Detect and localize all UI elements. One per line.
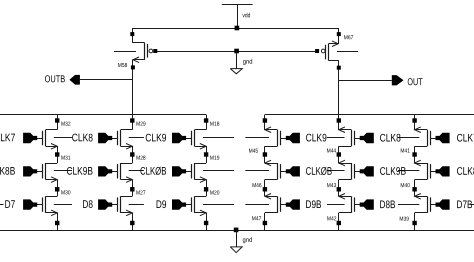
svg-text:CLK7: CLK7 — [0, 132, 15, 144]
svg-text:CLK8: CLK8 — [380, 132, 401, 144]
svg-text:M40: M40 — [400, 183, 410, 189]
svg-text:CLK8B: CLK8B — [457, 166, 474, 178]
svg-text:M28: M28 — [136, 156, 146, 162]
svg-text:M47: M47 — [252, 216, 262, 222]
svg-text:M46: M46 — [252, 183, 262, 189]
svg-text:vdd: vdd — [242, 12, 250, 19]
svg-text:M31: M31 — [61, 156, 71, 162]
svg-text:CLK9: CLK9 — [145, 132, 166, 144]
svg-text:OUTB: OUTB — [45, 74, 66, 85]
svg-text:M18: M18 — [210, 122, 220, 128]
svg-text:gnd: gnd — [242, 237, 252, 244]
svg-text:D8B: D8B — [380, 199, 396, 211]
svg-text:M58: M58 — [118, 63, 128, 69]
svg-text:M44: M44 — [327, 148, 337, 154]
svg-text:M45: M45 — [249, 149, 259, 155]
svg-text:M41: M41 — [400, 148, 410, 154]
svg-text:M20: M20 — [210, 190, 220, 196]
svg-text:M27: M27 — [136, 190, 146, 196]
svg-text:D9: D9 — [156, 199, 167, 211]
svg-text:CLK8: CLK8 — [72, 132, 93, 144]
svg-text:M19: M19 — [210, 156, 220, 162]
svg-text:D7B: D7B — [457, 199, 473, 211]
svg-text:M32: M32 — [61, 122, 71, 128]
svg-text:CLK9: CLK9 — [306, 132, 327, 144]
svg-text:D8: D8 — [82, 199, 93, 211]
svg-text:M29: M29 — [136, 122, 146, 128]
svg-text:M43: M43 — [327, 183, 337, 189]
svg-text:CLK9B: CLK9B — [380, 166, 407, 178]
svg-text:M30: M30 — [61, 190, 71, 196]
svg-text:M39: M39 — [399, 217, 409, 223]
svg-text:CLK8B: CLK8B — [0, 166, 15, 178]
svg-text:D9B: D9B — [306, 199, 322, 211]
svg-text:D7: D7 — [5, 199, 16, 211]
svg-text:CLK7: CLK7 — [457, 133, 474, 145]
svg-text:M67: M67 — [344, 35, 354, 41]
svg-text:CLKØB: CLKØB — [306, 166, 333, 178]
svg-text:M42: M42 — [327, 216, 337, 222]
svg-text:CLKØB: CLKØB — [140, 166, 167, 178]
svg-text:gnd: gnd — [243, 59, 253, 66]
svg-text:CLK9B: CLK9B — [66, 166, 93, 178]
svg-text:OUT: OUT — [407, 77, 422, 88]
